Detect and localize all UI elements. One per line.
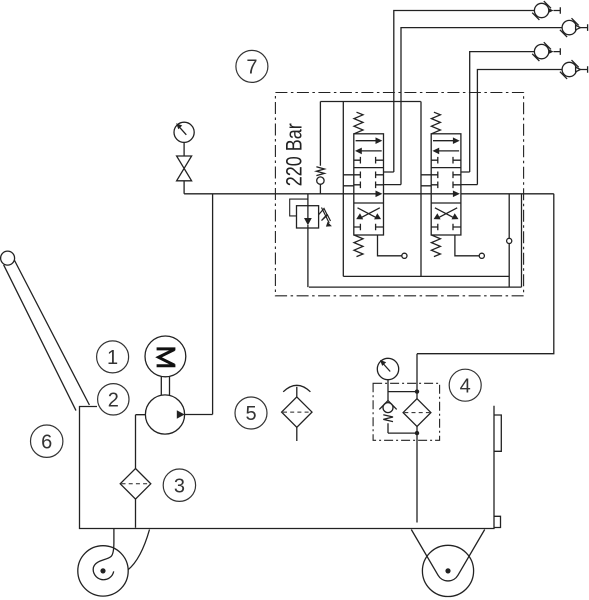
svg-text:5: 5 [245,403,256,425]
svg-text:4: 4 [460,375,471,397]
svg-text:220 Bar: 220 Bar [282,123,307,186]
svg-text:6: 6 [41,431,52,453]
svg-text:3: 3 [174,475,185,497]
svg-text:1: 1 [107,347,118,369]
svg-text:7: 7 [246,57,257,79]
svg-text:2: 2 [108,390,119,412]
